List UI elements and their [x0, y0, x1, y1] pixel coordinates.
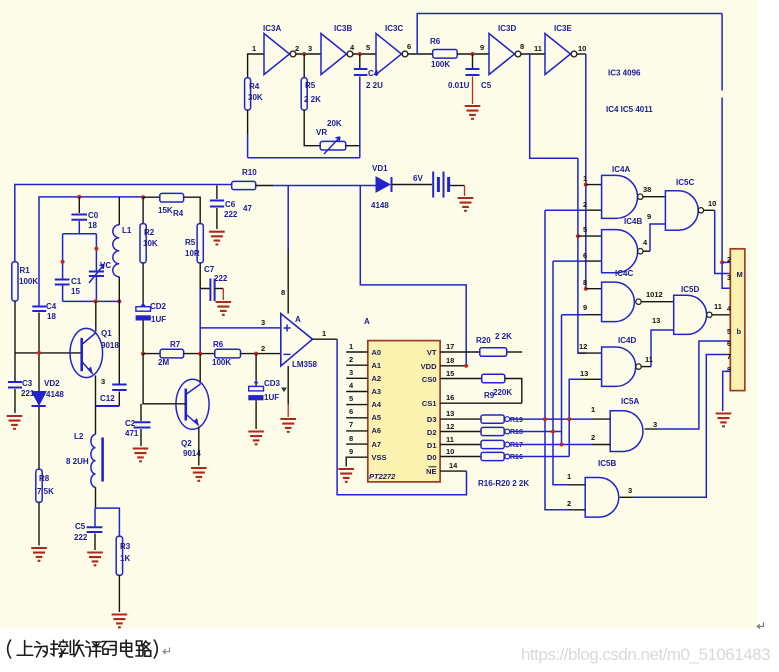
svg-text:D1: D1	[427, 441, 437, 450]
wire: op-amp V+ riser	[287, 186, 289, 251]
wire: IC3A input to R4 top	[248, 54, 264, 78]
wire: IC5B out to connector	[620, 496, 633, 498]
capacitor C12	[96, 301, 127, 406]
wire: C7 node down to op-amp plus and Q2 collector	[199, 289, 201, 355]
svg-text:11: 11	[446, 435, 454, 444]
wire: VDD supply route to PT2272	[360, 186, 466, 366]
pin VDD 18	[421, 356, 467, 371]
wire: IC4D out to IC5D pin13	[641, 366, 651, 368]
pin VT 17	[427, 342, 480, 357]
svg-text:47: 47	[243, 204, 252, 213]
svg-text:A: A	[364, 317, 370, 326]
svg-text:18: 18	[47, 312, 56, 321]
resistor R6 100K	[430, 37, 457, 69]
svg-text:2M: 2M	[158, 358, 169, 367]
resistor R4 30K	[245, 78, 263, 110]
wire: IC4A pin1 stub	[586, 184, 602, 186]
ground: connector	[716, 414, 732, 427]
node: VDD junction	[464, 364, 468, 368]
wire: emitter column to L2	[95, 406, 97, 434]
svg-text:0.01U: 0.01U	[448, 81, 470, 90]
capacitor C1 15	[55, 277, 82, 296]
svg-text:IC3C: IC3C	[385, 24, 403, 33]
svg-text:6: 6	[583, 251, 587, 260]
wire: R10 to VD1	[256, 185, 273, 187]
svg-text:A3: A3	[372, 387, 382, 396]
svg-text:11: 11	[645, 355, 653, 364]
svg-text:12: 12	[579, 342, 587, 351]
wire: R8 bottom to ground	[38, 502, 40, 545]
wire: IC5A out to connector	[645, 428, 658, 430]
svg-text:D3: D3	[427, 415, 437, 424]
svg-text:R4: R4	[173, 209, 184, 218]
wire: op-amp output loop to PT2272 /E	[337, 339, 466, 495]
svg-text:L1: L1	[122, 226, 132, 235]
resistor R16 2.2K	[481, 452, 523, 461]
svg-text:R19: R19	[510, 417, 523, 424]
capacitor C2 471	[125, 404, 151, 446]
gate IC5C	[665, 178, 703, 230]
svg-text:R4: R4	[249, 82, 260, 91]
wire: IC5A pin2 stub	[593, 444, 611, 446]
svg-text:CS0: CS0	[422, 375, 437, 384]
ground: C3	[7, 416, 23, 429]
wire: IC3C out to R6	[408, 53, 433, 55]
resistor R19 2.2K	[481, 415, 523, 424]
transistor Q1 9018	[70, 328, 119, 377]
svg-text:C7: C7	[204, 265, 215, 274]
node: V3/D1 dot	[560, 443, 564, 447]
svg-text:A: A	[295, 315, 301, 324]
svg-text:M: M	[737, 270, 743, 279]
svg-text:2: 2	[261, 344, 265, 353]
gate IC4B	[602, 217, 643, 273]
svg-text:LM358: LM358	[292, 360, 317, 369]
pin D2 12	[427, 422, 481, 437]
svg-text:VDD: VDD	[421, 362, 437, 371]
svg-text:11: 11	[534, 44, 542, 53]
svg-text:C5: C5	[481, 81, 492, 90]
svg-text:3: 3	[101, 377, 105, 386]
wire: Q2 collector riser	[199, 354, 201, 384]
svg-text:2: 2	[567, 499, 571, 508]
capacitor C5 0.01U	[448, 54, 492, 104]
pin VSS	[346, 447, 386, 467]
svg-text:IC5D: IC5D	[681, 285, 699, 294]
wire: R4 bottom to feedback rail	[247, 110, 249, 135]
pin 4 marker	[281, 388, 287, 393]
svg-text:2 2K: 2 2K	[304, 95, 321, 104]
电	[121, 640, 133, 657]
inverter IC3E	[545, 24, 577, 75]
schematic end return mark	[757, 623, 763, 629]
svg-text:3: 3	[628, 486, 632, 495]
wire: VD1 to battery	[392, 184, 432, 186]
svg-text:2: 2	[727, 257, 731, 264]
ground: C2	[133, 449, 149, 462]
wire: Q1 emitter down	[95, 376, 97, 407]
svg-text:C6: C6	[225, 200, 236, 209]
pin A2	[346, 368, 381, 383]
wire: IC4D pin13 stub	[585, 378, 602, 380]
svg-text:5: 5	[349, 394, 353, 403]
wire: R2 bottom to CD2	[142, 263, 144, 306]
resistor R1 100K	[12, 262, 39, 301]
svg-text:8: 8	[727, 367, 731, 374]
svg-text:IC4A: IC4A	[612, 165, 630, 174]
node: V4/D3 dot	[567, 417, 571, 421]
svg-text:7: 7	[349, 420, 353, 429]
node: R2 top junction	[141, 195, 145, 199]
wire: D2 row	[510, 431, 562, 433]
node: CD2 / R7 junction	[141, 352, 145, 356]
svg-text:8: 8	[349, 434, 353, 443]
svg-text:1UF: 1UF	[264, 393, 279, 402]
svg-text:Q2: Q2	[181, 439, 192, 448]
connector pin number labels	[727, 257, 731, 374]
pin A1	[346, 355, 381, 370]
resistor R5 10R	[185, 224, 203, 263]
svg-text:R5: R5	[185, 238, 196, 247]
svg-text:1: 1	[591, 405, 595, 414]
svg-text:R17: R17	[510, 442, 523, 449]
wire: clockbar riser down	[530, 54, 578, 158]
svg-text:222: 222	[74, 533, 88, 542]
pin CS1 16	[422, 393, 522, 408]
wire: Q1 collector up to tank rail	[95, 301, 97, 331]
svg-text:A5: A5	[372, 413, 382, 422]
svg-text:A1: A1	[372, 361, 382, 370]
wire: R5 bottom to C7 node	[200, 263, 210, 290]
svg-text:8: 8	[583, 278, 587, 287]
node: C0 junction	[77, 195, 81, 199]
svg-text:C0: C0	[88, 211, 99, 220]
svg-text:2 2U: 2 2U	[366, 81, 383, 90]
svg-text:VT: VT	[427, 348, 437, 357]
svg-text:VR: VR	[316, 128, 327, 137]
wire: D0 row	[510, 456, 570, 458]
svg-text:R3: R3	[120, 542, 131, 551]
connector J1 body	[730, 249, 745, 391]
ground: VSS	[338, 469, 354, 482]
node: clockbar/IC4B.5 dot	[576, 234, 580, 238]
wire: IC5C out to connector	[704, 209, 715, 211]
wire: tank left branch	[62, 234, 64, 302]
capacitor C4 18	[32, 302, 56, 353]
svg-text:14: 14	[449, 461, 458, 470]
svg-text:R6: R6	[430, 37, 441, 46]
wire: IC4A out to IC5C	[643, 196, 665, 198]
svg-text:R16: R16	[510, 454, 523, 461]
gate IC5A	[610, 397, 643, 452]
ground: C5	[87, 553, 103, 566]
node: C4 top junction	[358, 52, 362, 56]
svg-text:13: 13	[580, 369, 588, 378]
svg-text:4: 4	[727, 306, 731, 313]
resistor R7 2M	[158, 340, 184, 367]
battery 6V	[433, 172, 448, 198]
resistor R5 2.2K	[301, 54, 321, 110]
svg-text:10: 10	[578, 44, 586, 53]
svg-text:1: 1	[322, 329, 326, 338]
wire: tank bottom rail	[63, 300, 120, 302]
svg-text:3: 3	[261, 318, 265, 327]
wire: IC4C out to IC5D pin12	[641, 301, 674, 303]
svg-text:Q1: Q1	[101, 329, 112, 338]
wire: IC5B pin1 stub	[569, 484, 586, 486]
wire: IC5B pin2 stub	[569, 509, 586, 511]
svg-text:CD3: CD3	[264, 379, 281, 388]
svg-text:4148: 4148	[371, 201, 389, 210]
wire: D1 row to IC5A pin2	[510, 444, 593, 446]
svg-text:5: 5	[366, 43, 370, 52]
svg-text:3: 3	[653, 420, 657, 429]
wire: D3 row to IC5A pin1	[510, 418, 593, 420]
svg-text:https://blog.csdn.net/m0_51061: https://blog.csdn.net/m0_51061483	[521, 645, 770, 664]
wire: IC4C pin9 stub	[585, 314, 602, 316]
svg-text:VD2: VD2	[44, 379, 60, 388]
svg-text:A7: A7	[372, 440, 382, 449]
IC U2 PT2272 body	[364, 317, 440, 482]
resistor R4 15K	[158, 193, 184, 218]
svg-text:10: 10	[446, 447, 454, 456]
svg-text:9018: 9018	[101, 341, 119, 350]
wire: riser to top rail	[417, 14, 722, 55]
svg-text:9: 9	[583, 303, 587, 312]
node: CD3 junction	[254, 352, 258, 356]
resistor R6 100K	[212, 340, 241, 367]
capacitor C5 222	[74, 508, 102, 550]
resistor R10 47	[232, 168, 258, 213]
gate IC4C	[602, 269, 642, 322]
ground: R8	[31, 548, 47, 561]
resistor R3 1K	[116, 536, 131, 575]
svg-text:D0: D0	[427, 453, 437, 462]
svg-text:VD1: VD1	[372, 164, 388, 173]
resistor R2 10K	[140, 197, 158, 263]
svg-text:1: 1	[349, 342, 353, 351]
svg-text:100K: 100K	[431, 60, 450, 69]
ground: C7	[216, 302, 232, 315]
potentiometer VR 20K	[316, 119, 360, 154]
wire: R3 bottom to ground	[118, 575, 120, 612]
svg-text:6: 6	[727, 341, 731, 348]
wire: L2 bottom to C5/R3 node	[95, 487, 97, 508]
译	[85, 641, 100, 657]
capacitor C6 222	[210, 186, 238, 230]
ground: C5	[465, 106, 481, 119]
pin A5	[346, 407, 381, 422]
svg-text:CD2: CD2	[150, 302, 167, 311]
svg-text:6: 6	[407, 42, 411, 51]
svg-text:IC4C: IC4C	[615, 269, 633, 278]
gate IC4D	[602, 336, 642, 386]
node: Q2 collector junction	[198, 352, 202, 356]
node: C5 junction	[471, 52, 475, 56]
svg-text:R6: R6	[213, 340, 224, 349]
svg-text:PT2272: PT2272	[369, 472, 396, 481]
wire: IC4B pin5 stub	[578, 235, 602, 237]
收	[70, 640, 84, 657]
svg-text:100K: 100K	[19, 277, 38, 286]
wire: IC4B pin6 stub	[585, 260, 602, 262]
svg-text:6V: 6V	[413, 174, 423, 183]
pin D3 13	[427, 409, 481, 424]
svg-text:IC3 4096: IC3 4096	[608, 69, 641, 78]
wire: bus V3 D1 to IC4C.9	[562, 315, 587, 445]
wire: IC4A pin2 stub	[585, 209, 602, 211]
svg-text:38: 38	[643, 185, 651, 194]
svg-text:R7: R7	[170, 340, 181, 349]
svg-text:4148: 4148	[46, 390, 64, 399]
svg-text:6: 6	[349, 407, 353, 416]
svg-text:15: 15	[71, 287, 80, 296]
ground: R3	[112, 615, 128, 628]
pin A7	[346, 434, 381, 449]
resistor R17 2.2K	[481, 440, 523, 449]
node: IC3A output junction	[302, 52, 306, 56]
wire: tank right branch	[95, 234, 97, 302]
wire: op-amp V- to ground	[287, 366, 289, 405]
svg-text:A2: A2	[372, 374, 382, 383]
svg-text:10K: 10K	[143, 239, 158, 248]
variable capacitor VC	[89, 261, 111, 283]
capacitor C0 18	[71, 197, 98, 234]
svg-text:R1: R1	[20, 266, 31, 275]
inductor L1	[113, 197, 132, 302]
node: V1/D3 dot	[543, 417, 547, 421]
svg-text:7: 7	[727, 354, 731, 361]
svg-text:VC: VC	[100, 261, 111, 270]
接	[51, 640, 68, 657]
svg-text:9: 9	[647, 212, 651, 221]
ground: battery	[458, 198, 474, 211]
node: tank right dot	[94, 247, 98, 251]
wire: R1 bottom to Q1 base row	[15, 301, 82, 353]
svg-text:2: 2	[349, 355, 353, 364]
svg-text:10R: 10R	[185, 249, 200, 258]
svg-text:2: 2	[591, 433, 595, 442]
svg-text:5: 5	[727, 329, 731, 336]
pin D1 11	[427, 435, 481, 450]
ground: C6	[209, 232, 225, 245]
）	[154, 640, 157, 658]
svg-text:15K: 15K	[158, 206, 173, 215]
ground: CD3	[248, 432, 264, 445]
svg-text:471: 471	[125, 429, 139, 438]
wire: op-amp plus input row	[200, 327, 281, 329]
gate IC4A	[602, 165, 643, 218]
svg-text:C5: C5	[75, 522, 86, 531]
resistor R9 220K	[482, 374, 522, 403]
wire: clockbar V to IC4B.5 and IC4D.12	[578, 158, 586, 353]
svg-text:1: 1	[567, 472, 571, 481]
capacitor C7 222	[204, 265, 228, 301]
diode VD1 4148	[371, 164, 392, 210]
svg-text:222: 222	[214, 274, 228, 283]
pin D0 10	[427, 447, 481, 462]
svg-text:IC4 IC5 4011: IC4 IC5 4011	[606, 105, 653, 114]
capacitor C4 2.2U	[354, 54, 383, 158]
wire: R5 bottom to VR left	[304, 110, 320, 146]
capacitor CD3 10F electrolytic	[248, 354, 280, 429]
pin A0	[346, 342, 381, 357]
为	[34, 642, 47, 658]
svg-text:IC5C: IC5C	[676, 178, 694, 187]
svg-text:R2: R2	[144, 228, 155, 237]
svg-text:30K: 30K	[248, 93, 263, 102]
node: Q1 base / VD2 junction	[37, 351, 41, 355]
上	[17, 641, 33, 656]
wire: bus V1 D3 to IC4A.2 and IC5B.2	[545, 210, 586, 510]
svg-text:IC3A: IC3A	[263, 24, 281, 33]
svg-text:C3: C3	[22, 379, 33, 388]
inductor L2 8.2UH	[66, 432, 103, 487]
svg-text:IC4D: IC4D	[618, 336, 636, 345]
svg-text:1: 1	[583, 174, 587, 183]
svg-text:13: 13	[652, 316, 660, 325]
op-amp U1 LM358	[281, 314, 318, 370]
svg-text:R10: R10	[242, 168, 257, 177]
svg-text:2: 2	[295, 44, 299, 53]
svg-text:C12: C12	[100, 394, 115, 403]
svg-text:1UF: 1UF	[151, 315, 166, 324]
svg-text:A6: A6	[372, 426, 382, 435]
pin CS0 15	[422, 369, 482, 384]
svg-text:D2: D2	[427, 428, 437, 437]
svg-text:IC4B: IC4B	[624, 217, 642, 226]
svg-text:18: 18	[88, 221, 97, 230]
svg-text:1012: 1012	[646, 290, 663, 299]
wire: connector ground stub	[723, 371, 731, 411]
svg-text:R18: R18	[510, 429, 523, 436]
inverter IC3B	[321, 24, 353, 75]
inverter IC3D	[489, 24, 521, 75]
wire: IC3D out to IC3E in	[521, 53, 545, 55]
node: tank left dot	[61, 260, 65, 264]
caption return mark	[163, 648, 169, 655]
wire: IC3E out down to IC4A	[577, 53, 586, 55]
diode VD2 4148	[32, 353, 65, 469]
pin A4	[346, 394, 382, 409]
gate IC5D	[674, 285, 712, 334]
wire: Q2 emitter to ground	[198, 427, 200, 466]
node: V2/D2 dot	[551, 430, 555, 434]
svg-text:A4: A4	[372, 400, 382, 409]
svg-text:7 5K: 7 5K	[37, 487, 54, 496]
resistor R20 2.2K	[476, 332, 522, 356]
ground: op-amp	[280, 419, 296, 432]
svg-text:8: 8	[520, 42, 524, 51]
gate IC5B	[585, 459, 619, 517]
resistor R18 2.2K	[481, 427, 523, 436]
transistor Q2 9014	[176, 379, 209, 458]
wire: tank circuit top	[63, 233, 97, 235]
svg-text:R5: R5	[305, 81, 316, 90]
wire: main top-left power rail	[15, 185, 232, 262]
svg-text:8: 8	[281, 288, 285, 297]
wire: secondary rail	[39, 197, 144, 306]
路	[136, 641, 151, 656]
svg-text:IC5A: IC5A	[621, 397, 639, 406]
（	[8, 640, 11, 658]
码	[102, 642, 116, 656]
svg-text:11: 11	[714, 302, 722, 311]
pin /E 14	[426, 461, 466, 476]
svg-text:3: 3	[727, 275, 731, 282]
wire: IC4B out to IC5C pin9	[643, 250, 650, 252]
wire: R6 to IC3D	[457, 53, 489, 55]
